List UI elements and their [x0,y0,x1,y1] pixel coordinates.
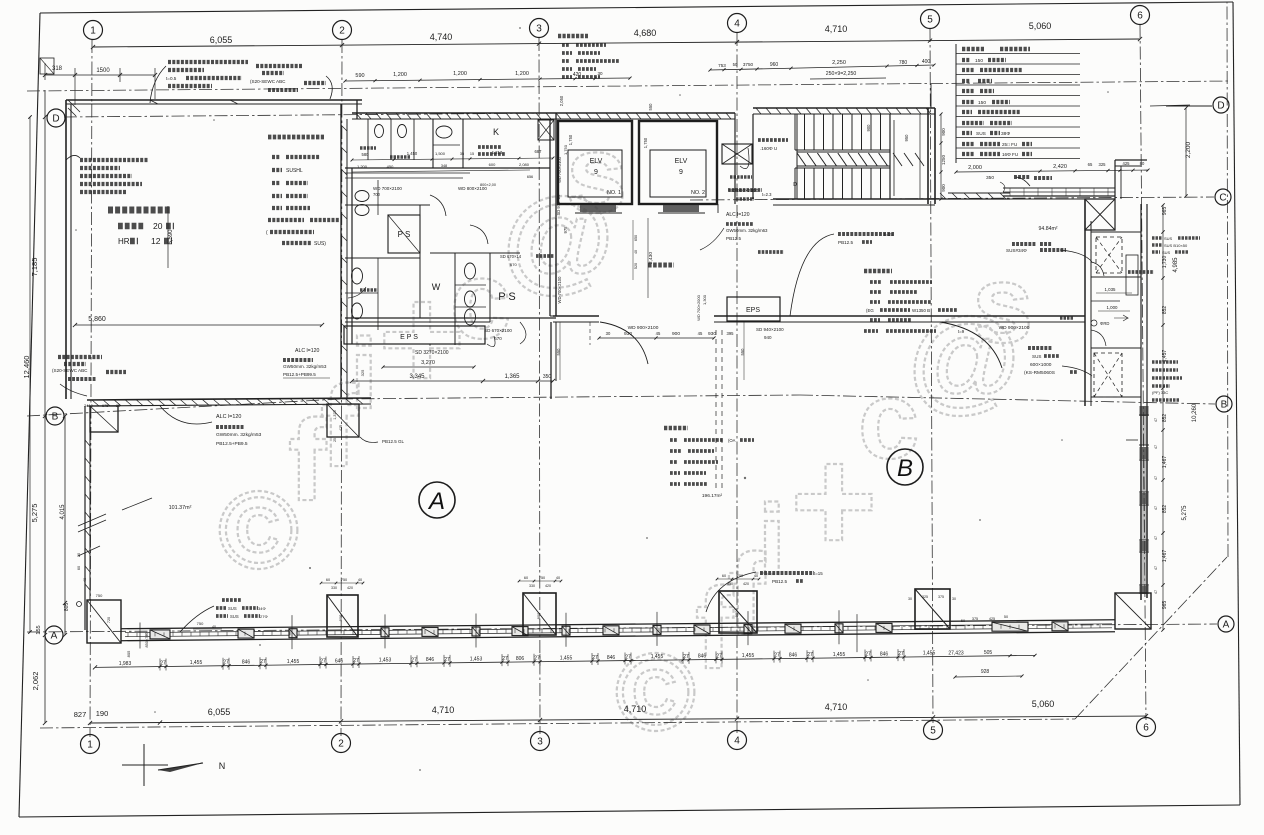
svg-text:753: 753 [718,63,726,68]
svg-text:1,200: 1,200 [515,71,529,77]
svg-text:47: 47 [1154,476,1158,480]
hatch marks west wall [341,125,347,131]
svg-text:SD 940×2100: SD 940×2100 [756,327,784,332]
svg-text:47: 47 [1154,418,1158,422]
grid bubble 3 top [530,19,549,38]
svg-text:SD 3270×2100: SD 3270×2100 [415,350,449,356]
svg-text:50: 50 [961,619,965,623]
svg-text:50: 50 [733,62,738,67]
svg-text:900: 900 [941,128,946,136]
svg-text:800: 800 [338,614,343,621]
north arrow [122,764,168,766]
svg-text:45: 45 [698,331,703,336]
stair east wall [927,108,929,204]
svg-text:800×2,00: 800×2,00 [480,183,496,187]
elevator shaft 2 door [655,203,701,205]
dashed X hatch lower [1094,353,1122,397]
svg-text:930: 930 [708,331,716,337]
svg-text:950: 950 [904,134,909,142]
svg-text:60: 60 [524,576,528,580]
svg-text:425: 425 [1123,161,1131,166]
svg-text:600: 600 [489,162,496,167]
svg-text:750: 750 [197,621,204,626]
svg-text:A: A [51,631,58,642]
svg-text:NO. 2: NO. 2 [691,190,705,196]
grid row D [64,113,557,117]
svg-text:WD 700×2100: WD 700×2100 [557,276,562,304]
svg-text:SUS: SUS [228,606,237,611]
svg-text:65: 65 [1088,162,1093,167]
svg-text:975: 975 [563,226,568,234]
hall door arc 2 [940,322,1002,368]
stone wall row C [935,198,1010,200]
grid bubble 6 top [1131,6,1150,25]
west wall break mark [78,520,106,532]
grid bubble B right [1216,396,1232,412]
svg-text:GW50mm. 32kg/m63: GW50mm. 32kg/m63 [726,228,768,233]
svg-text:W1350 B: W1350 B [912,308,930,313]
column A4 [719,591,757,633]
svg-text:40: 40 [556,576,560,580]
svg-text:2,050: 2,050 [559,95,564,106]
parking wall left [65,100,67,399]
svg-text:3,345: 3,345 [409,374,425,380]
grid line 1 [90,40,92,737]
svg-text:2,080: 2,080 [519,162,530,167]
column A2 [327,595,358,637]
south wall piers [150,630,170,639]
svg-text:900: 900 [941,184,946,192]
svg-text:930: 930 [624,331,632,337]
svg-text:38Φ: 38Φ [1001,131,1010,137]
svg-text:900: 900 [866,124,871,132]
svg-text:WD 900×2100: WD 900×2100 [999,325,1030,331]
stair top wall [753,107,935,109]
left 12460 dim line [29,117,31,632]
svg-text:45: 45 [656,331,661,336]
parking wall right / toilet west wall [340,104,342,399]
room tag B [887,449,923,485]
svg-text:720: 720 [107,617,111,623]
grid row B [27,399,340,416]
grid line 3 [539,38,540,734]
svg-text:846: 846 [789,652,798,658]
svg-text:60: 60 [722,574,726,578]
svg-text:30: 30 [606,331,611,336]
svg-text:D: D [1217,101,1224,112]
svg-text:2,250: 2,250 [832,60,846,66]
svg-text:325: 325 [1099,162,1107,167]
top wall hatch [356,113,361,119]
svg-text:1,365: 1,365 [504,374,520,380]
svg-text:1,450: 1,450 [407,151,418,156]
hall finish notes [864,269,892,273]
svg-text:806: 806 [516,656,525,662]
svg-text:590: 590 [355,73,364,79]
svg-text:3: 3 [536,24,542,35]
svg-text:WD 700×2100: WD 700×2100 [373,186,402,191]
svg-text:HR: HR [118,237,130,246]
grid bubble C right [1215,189,1231,205]
svg-text:50: 50 [1004,615,1008,619]
svg-text:PB12.5+PB99.5: PB12.5+PB99.5 [283,372,316,377]
svg-text:670: 670 [510,262,517,267]
svg-text:1,750: 1,750 [643,137,648,148]
grid bubble 5 top [921,10,940,29]
parking corner hatches [68,100,80,112]
svg-text:EPS: EPS [746,307,760,314]
svg-text:10,260: 10,260 [1192,403,1198,422]
svg-text:6: 6 [1143,723,1149,734]
expansion joint note left margin [58,355,102,359]
right block northeast corner [1115,159,1147,161]
svg-text:155: 155 [36,625,42,634]
svg-text:350: 350 [543,374,552,380]
svg-text:5,275: 5,275 [1182,505,1188,521]
grid line 2 [341,40,342,736]
svg-text:t=2.3: t=2.3 [762,192,772,197]
hall door dim 930 [599,337,714,339]
WC west stalls [352,268,363,284]
grid row A [27,624,1217,632]
svg-text:3: 3 [537,737,543,748]
east wall bottom corner column [1115,593,1151,629]
hatch door arcs right block [1091,262,1104,276]
south wall window mullions [127,633,129,637]
svg-text:1,200: 1,200 [357,164,368,169]
svg-text:1,730: 1,730 [1162,256,1168,269]
svg-text:850×740: 850×740 [145,633,149,648]
svg-text:SUS: SUS [976,131,986,137]
svg-text:16Φ FU: 16Φ FU [1002,152,1018,157]
stair landing hatch [797,153,806,166]
svg-text:846: 846 [880,651,889,657]
svg-text:6: 6 [1137,11,1143,22]
svg-text:450: 450 [387,164,394,169]
svg-text:827: 827 [74,710,87,719]
svg-text:SUSHL: SUSHL [286,168,303,174]
svg-text:2,430: 2,430 [648,252,654,264]
svg-text:325: 325 [360,369,365,376]
svg-text:1,455: 1,455 [742,653,755,659]
svg-text:846: 846 [242,659,251,665]
svg-text:600×1000: 600×1000 [1030,362,1052,368]
svg-text:SUS: SUS [230,614,239,619]
svg-text:94.84m²: 94.84m² [1038,226,1057,232]
svg-text:5: 5 [930,726,936,737]
svg-text:3,270: 3,270 [421,360,435,366]
svg-text:(S20-SEWC ABC: (S20-SEWC ABC [250,79,286,84]
office north wall hatched [87,398,371,400]
urinal stalls [367,119,369,160]
svg-text:PB12.5 GL: PB12.5 GL [382,439,405,444]
svg-text:47: 47 [1154,536,1158,540]
svg-text:t=0.5: t=0.5 [166,76,177,81]
svg-text:40: 40 [83,578,87,582]
hall bottom wall [553,315,599,317]
svg-text:646: 646 [335,658,344,664]
svg-text:400: 400 [922,59,931,65]
svg-text:(EG: (EG [866,308,874,313]
svg-text:E P S: E P S [400,334,418,341]
west wall [84,406,86,630]
svg-text:©: © [615,631,696,754]
svg-text:5: 5 [927,15,933,26]
svg-text:150: 150 [975,58,983,64]
hall label [648,262,674,267]
right margin notes lower [1152,360,1178,363]
grid bubble A left [45,626,63,644]
svg-text:1,455: 1,455 [560,655,573,661]
svg-text:675: 675 [102,404,108,408]
svg-text:395: 395 [727,331,735,336]
left end pier detail [139,623,141,649]
svg-text:SUS: SUS [1162,250,1171,255]
svg-text:420: 420 [545,584,551,588]
svg-text:1,467: 1,467 [1162,550,1168,563]
svg-text:(KS-RM5060S: (KS-RM5060S [1024,370,1055,376]
stair treads upper flight [794,114,796,150]
svg-text:27,423: 27,423 [948,650,964,656]
svg-text:1,983: 1,983 [119,661,132,667]
right block big corner hatch [1085,199,1115,230]
svg-text:GW50mm. 32kg/m53: GW50mm. 32kg/m53 [216,432,262,438]
dims under table [956,170,1148,172]
right margin small notes [1152,236,1162,239]
bench note [728,188,762,192]
svg-text:34Φ: 34Φ [258,606,266,611]
svg-text:1250: 1250 [941,154,946,165]
svg-text:(S20-SEWC ABC: (S20-SEWC ABC [52,368,88,373]
expansion joint note top [256,64,302,68]
corner hatch box top left [40,58,54,74]
svg-text:1,213: 1,213 [492,150,503,155]
bottom main dim line [90,716,1146,723]
svg-text:t=9: t=9 [958,329,965,334]
toilet upper notes [360,146,376,149]
svg-text:P S: P S [498,291,516,303]
svg-text:25: 25 [116,404,120,408]
svg-text:s: s [972,243,1033,366]
svg-text:60: 60 [326,578,330,582]
svg-text:325: 325 [922,595,928,599]
svg-text:ΦRD: ΦRD [1100,321,1109,326]
svg-text:30: 30 [952,597,956,601]
K room [462,119,464,168]
svg-text:520: 520 [634,263,638,269]
svg-text:580: 580 [362,152,370,157]
step wall x553 [550,322,552,399]
south wall sill lines [121,620,1115,629]
svg-text:846: 846 [607,655,616,661]
parking outer wall top [66,99,362,101]
svg-text:6,590: 6,590 [168,229,174,245]
svg-text:375: 375 [938,595,944,599]
svg-text:60: 60 [77,566,81,570]
stair west area [752,114,754,199]
svg-text:318: 318 [52,66,63,72]
misc vertical ticks on A wall [291,615,293,649]
table row texts [962,47,984,52]
svg-text:.160Φ U: .160Φ U [760,146,777,151]
svg-text:4,015: 4,015 [60,504,66,520]
grid bubble 2 top [333,21,352,40]
svg-text:2,062: 2,062 [31,672,40,691]
svg-text:3750: 3750 [743,62,754,67]
svg-text:7,185: 7,185 [30,258,39,277]
svg-text:1: 1 [87,740,93,751]
svg-text:9: 9 [594,169,598,176]
svg-text:20: 20 [153,221,163,231]
column top mini dims [321,582,363,584]
parking note text upper-left [80,158,148,162]
svg-text:1,750: 1,750 [568,134,573,145]
svg-text:1,455: 1,455 [923,651,936,657]
svg-text:SUS#34Φ: SUS#34Φ [1006,248,1027,253]
leader arc eps [487,336,495,347]
svg-text:SD 900×2100: SD 900×2100 [729,188,759,194]
stair treads lower flight [794,168,796,199]
svg-text:700: 700 [373,192,381,197]
svg-text:196.17m²: 196.17m² [702,493,723,499]
svg-text:80: 80 [1140,161,1145,166]
grid bubble 1 top [84,21,103,40]
svg-text:©: © [218,469,299,592]
column A3 [523,593,556,635]
svg-text:ALC l=120: ALC l=120 [295,348,319,354]
svg-text:SD 670×2100: SD 670×2100 [484,328,512,333]
column B2 [327,404,359,437]
svg-text:800: 800 [536,612,541,619]
svg-text:1,200: 1,200 [393,72,407,78]
svg-text:5,060: 5,060 [1032,699,1055,709]
svg-text:1,453: 1,453 [379,658,392,664]
svg-text:47: 47 [1154,590,1158,594]
elevator shaft 2 [639,121,717,204]
svg-text:40: 40 [358,578,362,582]
svg-text:1,467: 1,467 [1162,456,1168,469]
svg-text:965: 965 [1162,207,1168,216]
svg-text:852: 852 [1162,306,1168,315]
grid row C [690,197,1214,200]
svg-text:25: 25 [333,438,337,442]
svg-text:PB12.5: PB12.5 [838,240,854,245]
svg-text:D: D [793,182,797,188]
svg-text:2,000: 2,000 [968,165,982,171]
parking label text [108,207,170,214]
toilet dim band [352,158,553,160]
svg-text:PB12.5+PB9.5: PB12.5+PB9.5 [216,441,248,447]
svg-text:250×9=2,250: 250×9=2,250 [826,71,857,77]
svg-text:9: 9 [679,169,683,176]
svg-text:1,035: 1,035 [1105,287,1117,292]
svg-text:N: N [219,761,226,771]
west bottom corner column [87,600,121,643]
svg-text:(PF) 33C: (PF) 33C [1152,390,1168,395]
grid bubble 4 top [728,14,747,33]
hall west wall [550,315,556,317]
svg-text:47: 47 [1154,506,1158,510]
K sink box [538,120,554,140]
svg-text:SUS): SUS) [314,241,326,247]
elevator shaft 1 door [572,203,618,205]
svg-text:1,455: 1,455 [651,654,664,660]
parking step join [356,100,358,119]
svg-text:WD 900×2100: WD 900×2100 [628,325,659,331]
toilet block top wall [352,112,556,114]
svg-text:SUS: SUS [1032,354,1041,359]
stair bottom wall [773,198,935,200]
grid bubble 3 bottom [531,732,550,751]
svg-text:(OA: (OA [728,438,736,443]
stair dims right [940,114,942,199]
svg-text:40: 40 [212,625,216,629]
svg-text:4: 4 [734,19,740,30]
svg-text:900: 900 [672,331,680,337]
office finish schedule text [664,426,688,431]
svg-text:4,710: 4,710 [432,705,455,715]
grid bubble D left [47,109,65,127]
svg-text:47: 47 [1154,445,1158,449]
site boundary chain north [27,81,1231,91]
svg-text:805: 805 [126,650,131,657]
svg-text:4,740: 4,740 [430,32,453,42]
svg-text:348: 348 [441,164,447,168]
svg-text:780: 780 [899,60,908,66]
bottom window dim chain [95,655,1035,667]
grid bubble 5 bottom [924,721,943,740]
svg-text:330: 330 [331,586,337,590]
svg-text:1,000: 1,000 [1107,305,1119,310]
svg-text:4,710: 4,710 [624,704,647,714]
west wall hatch [85,440,90,446]
partition mid [345,204,430,206]
svg-text:846: 846 [426,657,435,663]
siding note [168,60,248,64]
svg-text:550: 550 [648,103,653,111]
svg-text:425: 425 [339,425,343,431]
hot water room note [558,34,588,38]
svg-text:101.37m²: 101.37m² [169,505,192,511]
svg-text:PB12.5: PB12.5 [772,579,788,584]
svg-text:C: C [1219,193,1226,204]
swing arcs toilets [430,195,446,216]
parking inner dim 5860 [75,324,322,326]
svg-text:SD 670×14: SD 670×14 [500,254,522,259]
svg-text:4,680: 4,680 [634,28,657,38]
svg-text:4: 4 [734,736,740,747]
svg-text:846: 846 [698,654,707,660]
svg-text:B: B [52,412,59,423]
svg-text:5,060: 5,060 [1029,21,1052,31]
svg-text:B: B [897,455,913,482]
svg-text:1,455: 1,455 [190,660,203,666]
svg-text:150: 150 [978,100,986,106]
right block west wall [1084,221,1086,406]
svg-text:1,500: 1,500 [435,151,446,156]
svg-text:750: 750 [539,576,545,580]
svg-text:1,375: 1,375 [333,410,337,420]
scan specks [309,567,311,569]
top dim tier2 left [45,74,155,76]
EPS room [344,326,485,344]
step dims under EPS [352,380,553,382]
svg-text:5,275: 5,275 [30,504,39,523]
svg-text:PB12.5: PB12.5 [726,236,742,241]
svg-text:1: 1 [90,26,96,37]
WC east stalls [465,263,476,279]
grid bubble 4 bottom [728,731,747,750]
